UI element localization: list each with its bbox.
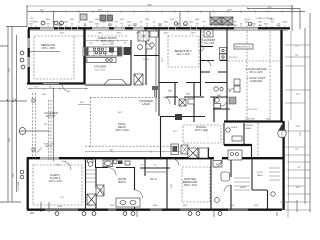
svg-text:34'8": 34'8" — [9, 137, 11, 142]
bath2 vanity — [213, 161, 222, 168]
dashed tray: bedroom 3 — [168, 36, 199, 67]
svg-text:BATH: BATH — [257, 174, 263, 177]
svg-text:12'8": 12'8" — [296, 126, 301, 128]
foyer closets — [188, 148, 208, 158]
foyer east wall — [251, 145, 253, 159]
lanai knee wall — [224, 144, 252, 146]
svg-text:36'0": 36'0" — [80, 102, 85, 104]
media sill dimension line — [28, 88, 88, 90]
powder fixtures — [226, 128, 242, 141]
lanai dashes — [257, 123, 259, 156]
left exterior wall upper (media) — [28, 29, 30, 84]
svg-text:14'0": 14'0" — [13, 172, 15, 177]
svg-text:22'0": 22'0" — [296, 94, 301, 96]
bath2 fixtures — [214, 98, 221, 108]
wic west wall — [144, 159, 146, 176]
ticks on top dim line — [26, 5, 294, 13]
master suite north wall — [85, 157, 283, 159]
svg-text:LAUNDRY7'0 x 9'6: LAUNDRY7'0 x 9'6 — [202, 38, 215, 45]
window label row inside bottom wall — [58, 205, 259, 208]
laundry sink — [204, 30, 213, 37]
hall south wall — [160, 116, 205, 118]
svg-text:MASTERBEDROOM16'8 x 14'0: MASTERBEDROOM16'8 x 14'0 — [183, 177, 198, 187]
svg-text:22'0": 22'0" — [300, 131, 302, 136]
bottom exterior wall — [27, 209, 282, 211]
svg-text:HERS: HERS — [240, 187, 246, 189]
dashed tray: master bedroom — [182, 167, 210, 202]
interior wall: media east — [83, 29, 85, 84]
svg-text:6040 SGD: 6040 SGD — [245, 119, 255, 121]
master closet shelves — [234, 178, 250, 190]
garage equipment boxes — [234, 79, 240, 92]
interior wall: hall / bedroom3 west — [158, 29, 160, 116]
left rotated dim text — [9, 67, 15, 177]
window mullion breaks — [59, 27, 197, 30]
great room bay — [104, 80, 127, 85]
svg-text:24'8": 24'8" — [228, 10, 233, 12]
svg-text:88'4": 88'4" — [148, 5, 153, 7]
interior wall: bedroom3 east / laundry west — [200, 29, 202, 96]
porch posts — [32, 99, 35, 151]
svg-text:9'0": 9'0" — [295, 55, 299, 57]
guest bath shelves — [86, 170, 96, 182]
porch edge line — [53, 88, 55, 161]
master tub2 — [103, 160, 113, 167]
outdoor grill — [181, 145, 188, 154]
svg-text:W.I.C.: W.I.C. — [150, 177, 158, 181]
master bath north wall — [95, 167, 170, 170]
svg-text:PWDR: PWDR — [231, 127, 238, 129]
master bedroom east wall — [210, 159, 212, 210]
great room dim labels — [89, 43, 127, 45]
svg-text:10'0": 10'0" — [228, 25, 233, 27]
powder toilet — [138, 45, 143, 50]
hall bath fixtures — [179, 87, 223, 106]
svg-text:SH: SH — [115, 21, 118, 23]
media niche line — [30, 51, 61, 53]
door tag arc — [230, 88, 234, 92]
kitchen counters — [83, 47, 122, 56]
svg-text:8'0": 8'0" — [248, 25, 252, 27]
north arrow — [278, 125, 286, 138]
outdoor fireplace columns — [80, 14, 113, 21]
eave line right of garage — [280, 31, 296, 218]
svg-text:6'0": 6'0" — [34, 87, 38, 89]
garage water heater label box — [234, 44, 253, 49]
svg-text:OHD: OHD — [258, 25, 263, 27]
trellis hatch squares above laundry — [210, 17, 233, 25]
grid bubbles left — [20, 51, 25, 179]
master bath2 east wall — [230, 159, 232, 210]
windows: bottom wall — [45, 209, 248, 211]
hall tub — [175, 114, 182, 120]
section marker circle — [19, 128, 26, 135]
dashed roofline great room — [74, 35, 128, 37]
powder south wall — [134, 55, 159, 57]
window: media left wall — [28, 38, 30, 67]
svg-text:8'4": 8'4" — [295, 149, 299, 151]
entry walkway dashes inner — [49, 100, 52, 160]
master bath west wall — [95, 167, 97, 210]
svg-text:22'8 x 22'0: 22'8 x 22'0 — [247, 109, 258, 111]
kitchen island — [86, 58, 116, 63]
svg-text:2'0": 2'0" — [295, 46, 299, 48]
svg-text:15'4": 15'4" — [49, 87, 54, 89]
svg-text:2x12 HDR: 2x12 HDR — [18, 181, 20, 191]
pantry hatch cabinet — [138, 31, 149, 41]
media room bottom wall — [27, 82, 85, 84]
svg-text:PWDR: PWDR — [143, 59, 150, 61]
bath2 tub — [221, 172, 230, 181]
dashed tray: guest suite — [33, 165, 82, 205]
bedroom3 south wall — [159, 82, 227, 84]
master bath: toilet — [88, 160, 94, 167]
svg-text:CLG: CLG — [30, 21, 35, 23]
svg-text:31'4": 31'4" — [268, 7, 273, 9]
svg-text:COVERED: COVERED — [243, 125, 254, 127]
entry leader line — [26, 130, 50, 132]
window: top wall segments — [40, 28, 144, 30]
svg-text:OHD: OHD — [276, 25, 281, 27]
micro tick fuzz above top wall — [29, 21, 288, 25]
svg-text:14'0": 14'0" — [296, 187, 301, 189]
gallery chase wall line — [155, 29, 157, 112]
grid bubbles bottom — [55, 212, 222, 216]
refrigerator — [124, 47, 132, 55]
svg-text:5'0": 5'0" — [168, 90, 172, 92]
kitchen appliance blocks — [84, 48, 122, 56]
svg-text:MEDIA RM13'6 x 16'8: MEDIA RM13'6 x 16'8 — [41, 43, 56, 50]
svg-text:8'0": 8'0" — [44, 124, 48, 126]
deck roof dashed — [85, 145, 180, 147]
dashed lanai roof — [91, 97, 161, 147]
makeup counter — [125, 161, 130, 165]
washer dryer — [220, 48, 227, 61]
dashed laundry door path — [201, 31, 203, 46]
master vanity — [116, 198, 140, 207]
svg-text:SH: SH — [84, 25, 87, 27]
svg-text:MSTRBATH: MSTRBATH — [118, 177, 126, 184]
great room south sliders — [85, 84, 131, 85]
garage bottom wall — [224, 120, 283, 122]
svg-text:SH: SH — [271, 21, 274, 23]
svg-text:24'0": 24'0" — [118, 112, 123, 114]
svg-text:24'0": 24'0" — [98, 10, 103, 12]
guest suite east wall — [85, 159, 87, 211]
guest suite north wall — [27, 157, 85, 159]
outdoor kitchen — [228, 150, 242, 160]
svg-text:9'2": 9'2" — [204, 131, 208, 133]
grid bubbles top — [41, 21, 252, 26]
garage step — [229, 97, 236, 104]
svg-text:21'2": 21'2" — [40, 10, 45, 12]
wic shelves — [146, 171, 166, 173]
svg-text:5'8": 5'8" — [194, 155, 198, 157]
window labels below top wall — [60, 33, 196, 35]
interior wall: mud room — [201, 47, 228, 73]
garage door band top wall — [234, 28, 258, 30]
svg-text:13'4": 13'4" — [173, 131, 178, 133]
wd box — [118, 161, 123, 165]
top exterior wall — [28, 27, 290, 29]
door swing arcs — [62, 47, 231, 199]
svg-text:LANAI: LANAI — [245, 127, 251, 130]
great room dim line — [86, 40, 128, 42]
outdoor fireplace — [171, 144, 179, 155]
right exterior wall (garage) — [280, 30, 282, 121]
svg-text:TANKLESS W.H.: TANKLESS W.H. — [235, 46, 252, 49]
dimension frame top — [6, 6, 305, 31]
svg-text:16'8 CLG HT: 16'8 CLG HT — [102, 44, 115, 46]
svg-text:16'8 CLG: 16'8 CLG — [229, 57, 238, 59]
svg-text:ABOVE: ABOVE — [45, 145, 53, 148]
svg-text:16070: 16070 — [244, 19, 251, 21]
right exterior wall lower — [282, 121, 284, 210]
master bedroom west wall — [166, 159, 168, 210]
hall bath walls — [166, 83, 230, 122]
dimension texts — [30, 5, 301, 200]
interior wall: garage west — [226, 29, 228, 121]
master bath east wall — [134, 167, 136, 210]
left exterior wall lower — [27, 158, 29, 210]
foyer west wall — [208, 148, 210, 159]
svg-text:12'4": 12'4" — [13, 97, 15, 102]
powder room off hall — [134, 31, 158, 85]
svg-text:12'0": 12'0" — [162, 57, 164, 62]
svg-text:KITCHEN: KITCHEN — [94, 65, 106, 69]
svg-text:POOL: POOL — [257, 172, 264, 174]
svg-text:16'8": 16'8" — [87, 57, 89, 62]
svg-text:BEDROOM 311'4 x 12'0: BEDROOM 311'4 x 12'0 — [175, 49, 192, 56]
top wall inner face — [30, 30, 288, 32]
lanai east wall — [152, 86, 158, 97]
dimension ticks bottom — [30, 200, 297, 217]
svg-text:22'0": 22'0" — [9, 67, 11, 72]
window label row above top wall — [46, 19, 281, 27]
dashed garage bays — [228, 31, 281, 120]
dashed courtyard walkway — [33, 93, 36, 160]
pool bath walls — [252, 159, 268, 210]
powder sink — [146, 44, 152, 49]
bath2 toilet — [215, 198, 220, 203]
deck dimension line — [85, 151, 180, 153]
dashed tray: media room — [34, 36, 74, 79]
dimension frame right — [285, 13, 311, 212]
powder room walls — [224, 123, 244, 145]
dining west wall — [160, 117, 162, 160]
svg-text:1 LINE OF RIDGE: 1 LINE OF RIDGE — [256, 18, 274, 20]
linen box — [114, 160, 118, 164]
interior wall: kitchen east — [130, 40, 132, 85]
interior wall: pantry west — [145, 29, 147, 85]
svg-text:9'0": 9'0" — [30, 18, 34, 20]
window: guest north wall — [40, 158, 59, 160]
svg-text:12'4": 12'4" — [128, 25, 133, 27]
svg-text:14'0": 14'0" — [171, 183, 173, 188]
wc room walls — [86, 159, 96, 169]
svg-text:22'0": 22'0" — [229, 87, 231, 92]
dimension frame left — [0, 27, 27, 203]
master shower — [96, 185, 104, 196]
svg-text:21'0": 21'0" — [60, 197, 65, 199]
pool bath fixtures — [269, 168, 280, 196]
svg-text:10'0 x 16'0: 10'0 x 16'0 — [95, 70, 106, 72]
guest bath shower — [87, 194, 96, 205]
dashed tray: dining — [183, 125, 221, 143]
window: media bottom wall — [43, 83, 59, 85]
svg-text:4'0": 4'0" — [297, 167, 301, 169]
